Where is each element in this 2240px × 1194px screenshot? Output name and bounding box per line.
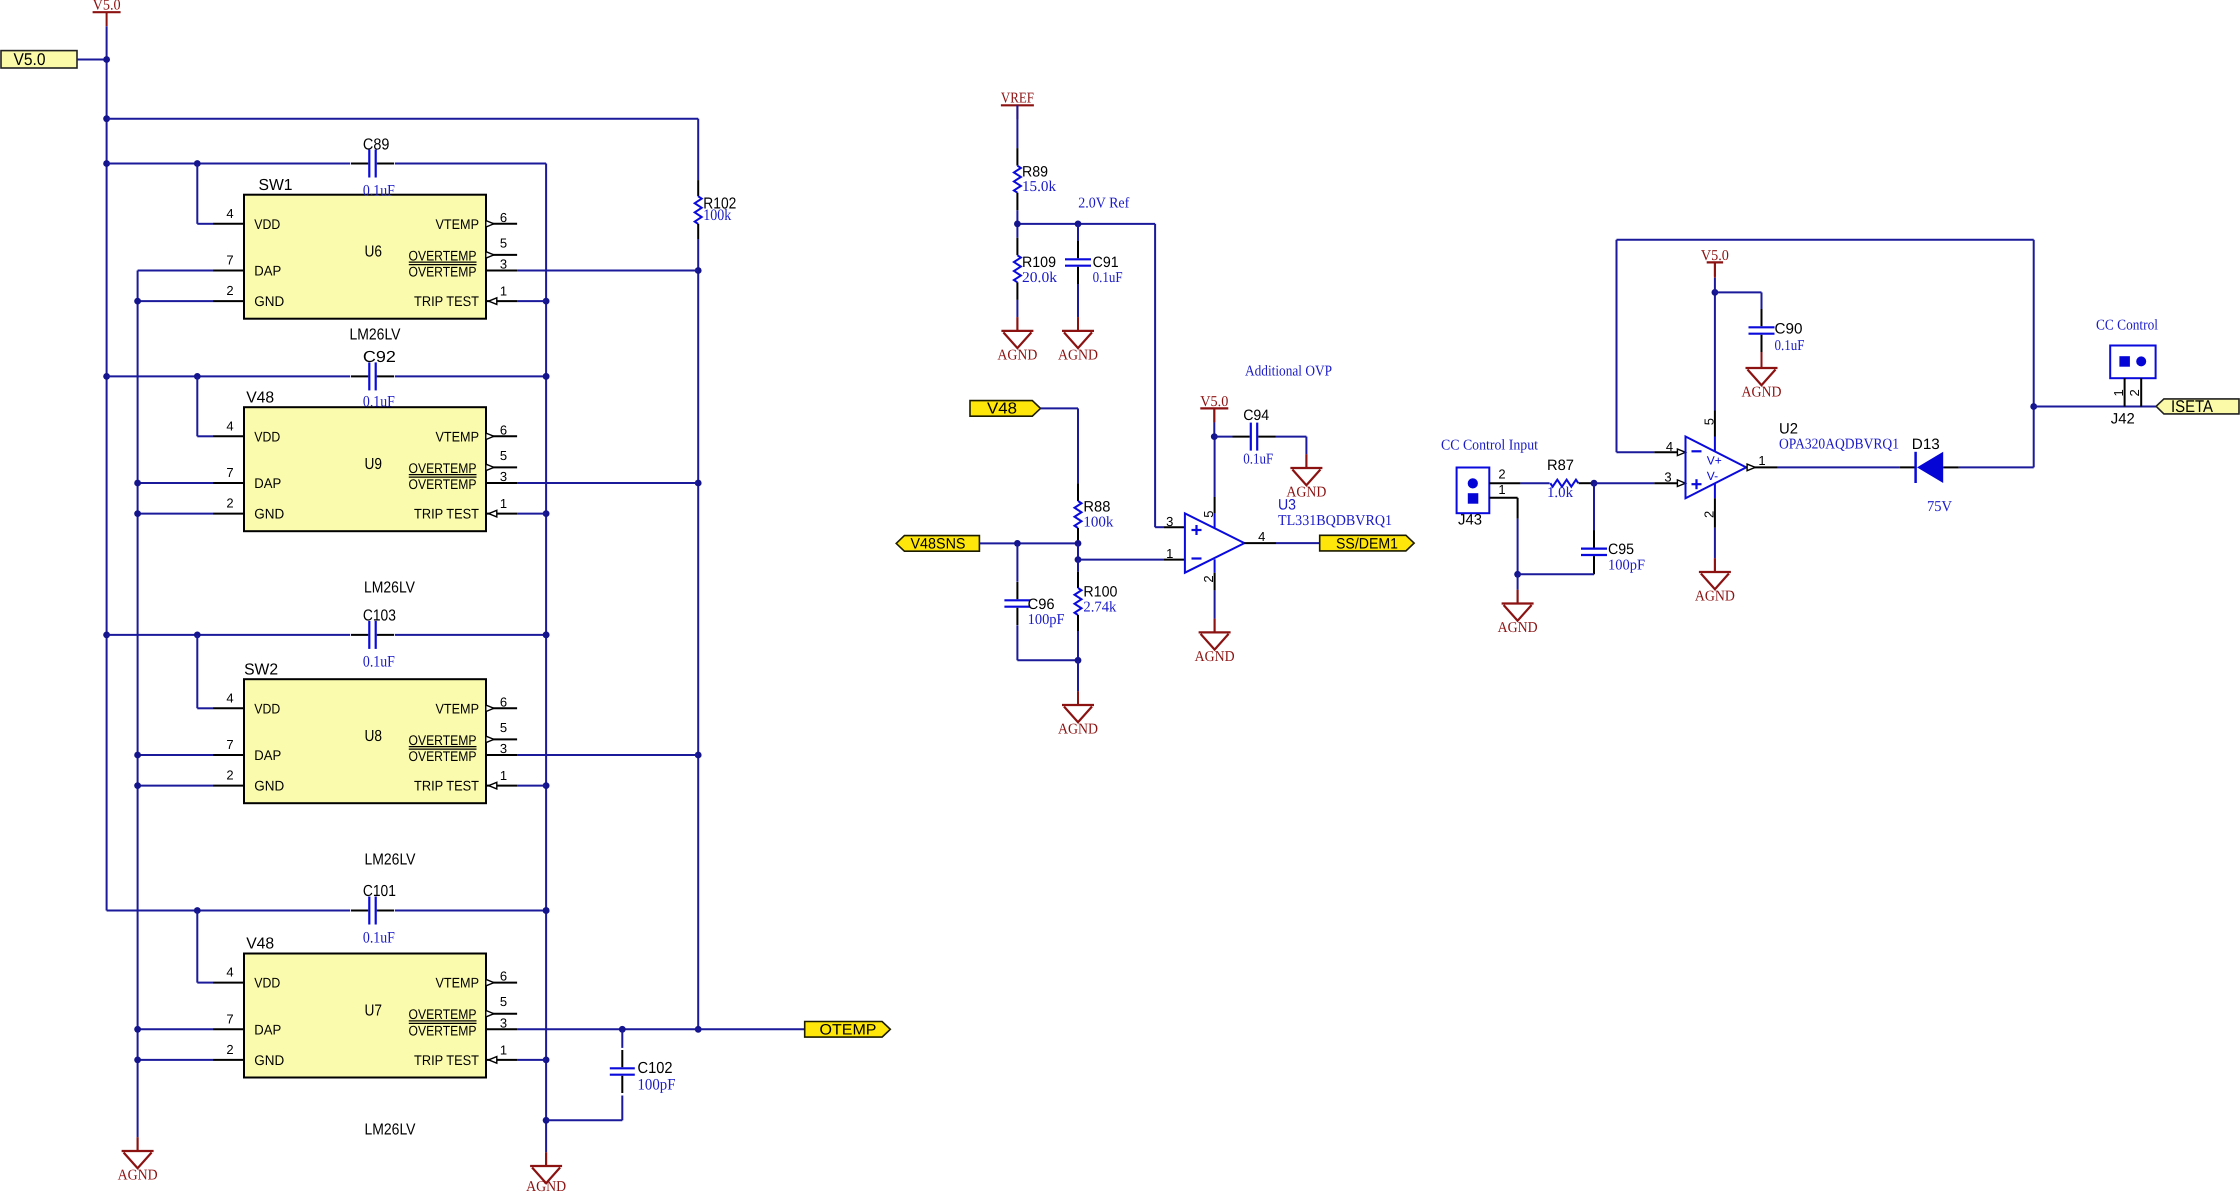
svg-text:100pF: 100pF — [1028, 612, 1065, 628]
svg-text:V48: V48 — [246, 936, 274, 953]
svg-text:DAP: DAP — [254, 1021, 281, 1037]
svg-text:5: 5 — [500, 720, 507, 735]
svg-text:C89: C89 — [363, 137, 390, 154]
svg-text:C90: C90 — [1775, 320, 1803, 337]
svg-text:100pF: 100pF — [1608, 558, 1645, 574]
svg-text:0.1uF: 0.1uF — [363, 929, 395, 946]
svg-text:OTEMP: OTEMP — [820, 1022, 877, 1039]
svg-text:AGND: AGND — [1498, 620, 1538, 636]
svg-text:R109: R109 — [1022, 254, 1056, 271]
svg-text:6: 6 — [500, 969, 507, 984]
svg-text:DAP: DAP — [254, 475, 281, 491]
svg-text:7: 7 — [226, 465, 233, 480]
svg-text:3: 3 — [500, 469, 507, 484]
svg-text:6: 6 — [500, 210, 507, 225]
svg-text:Additional OVP: Additional OVP — [1245, 363, 1332, 379]
svg-text:0.1uF: 0.1uF — [363, 393, 395, 410]
svg-text:CC Control: CC Control — [2096, 317, 2158, 333]
svg-text:1: 1 — [2111, 389, 2126, 396]
svg-text:VDD: VDD — [254, 216, 280, 232]
svg-text:C103: C103 — [363, 607, 396, 624]
svg-text:C102: C102 — [638, 1060, 673, 1077]
svg-text:TRIP TEST: TRIP TEST — [414, 778, 479, 794]
svg-text:AGND: AGND — [1058, 348, 1098, 364]
svg-text:AGND: AGND — [1195, 649, 1235, 665]
svg-text:1: 1 — [1758, 453, 1765, 468]
svg-text:TRIP TEST: TRIP TEST — [414, 293, 479, 309]
svg-text:20.0k: 20.0k — [1022, 270, 1058, 286]
svg-text:R100: R100 — [1083, 583, 1117, 600]
svg-text:LM26LV: LM26LV — [350, 327, 401, 344]
svg-text:5: 5 — [500, 448, 507, 463]
svg-text:75V: 75V — [1927, 499, 1952, 515]
svg-text:VTEMP: VTEMP — [436, 975, 480, 991]
svg-text:V48SNS: V48SNS — [911, 536, 966, 553]
svg-text:SW1: SW1 — [259, 177, 293, 194]
svg-text:OVERTEMP: OVERTEMP — [409, 247, 477, 263]
svg-text:1: 1 — [500, 768, 507, 783]
svg-text:1: 1 — [1166, 546, 1173, 561]
svg-text:AGND: AGND — [526, 1179, 566, 1194]
svg-text:3: 3 — [500, 741, 507, 756]
svg-text:2.74k: 2.74k — [1083, 599, 1116, 615]
svg-text:OVERTEMP: OVERTEMP — [409, 460, 477, 476]
svg-text:2: 2 — [226, 768, 233, 783]
svg-text:4: 4 — [226, 206, 233, 221]
svg-text:3: 3 — [1664, 470, 1671, 485]
svg-text:OVERTEMP: OVERTEMP — [409, 748, 477, 764]
svg-text:GND: GND — [254, 778, 284, 794]
svg-text:C101: C101 — [363, 883, 396, 900]
svg-text:OVERTEMP: OVERTEMP — [409, 1006, 477, 1022]
svg-text:5: 5 — [500, 235, 507, 250]
svg-text:VTEMP: VTEMP — [436, 428, 480, 444]
svg-text:1: 1 — [500, 496, 507, 511]
svg-text:AGND: AGND — [997, 348, 1037, 364]
svg-text:0.1uF: 0.1uF — [1775, 338, 1805, 354]
svg-text:6: 6 — [500, 694, 507, 709]
svg-text:2: 2 — [226, 496, 233, 511]
svg-text:100k: 100k — [1083, 515, 1114, 531]
svg-text:5: 5 — [1201, 511, 1216, 518]
svg-text:DAP: DAP — [254, 263, 281, 279]
svg-text:2: 2 — [2127, 389, 2142, 396]
svg-text:AGND: AGND — [1058, 722, 1098, 738]
svg-text:3: 3 — [500, 257, 507, 272]
svg-text:LM26LV: LM26LV — [364, 580, 415, 597]
svg-text:U9: U9 — [365, 456, 383, 473]
svg-text:V48: V48 — [987, 401, 1017, 418]
svg-text:0.1uF: 0.1uF — [1093, 270, 1123, 286]
svg-text:V+: V+ — [1707, 454, 1722, 468]
svg-text:R87: R87 — [1547, 457, 1574, 474]
svg-text:0.1uF: 0.1uF — [363, 183, 395, 200]
svg-text:2: 2 — [1702, 511, 1717, 518]
svg-text:0.1uF: 0.1uF — [363, 654, 395, 671]
svg-text:2.0V Ref: 2.0V Ref — [1078, 196, 1129, 212]
svg-text:J42: J42 — [2111, 410, 2135, 427]
svg-text:1.0k: 1.0k — [1547, 485, 1573, 501]
svg-text:SW2: SW2 — [244, 661, 278, 678]
svg-text:SS/DEM1: SS/DEM1 — [1336, 535, 1398, 552]
svg-text:7: 7 — [226, 253, 233, 268]
svg-text:5: 5 — [500, 994, 507, 1009]
svg-text:VDD: VDD — [254, 975, 280, 991]
svg-text:AGND: AGND — [1742, 385, 1782, 401]
svg-text:5: 5 — [1702, 418, 1717, 425]
svg-text:C91: C91 — [1093, 254, 1119, 271]
svg-text:OVERTEMP: OVERTEMP — [409, 732, 477, 748]
svg-text:4: 4 — [1666, 439, 1673, 454]
svg-text:4: 4 — [226, 965, 233, 980]
svg-text:D13: D13 — [1912, 436, 1940, 453]
svg-text:VTEMP: VTEMP — [436, 700, 480, 716]
svg-text:0.1uF: 0.1uF — [1243, 452, 1273, 468]
svg-text:DAP: DAP — [254, 747, 281, 763]
svg-text:U3: U3 — [1278, 497, 1296, 514]
svg-text:OVERTEMP: OVERTEMP — [409, 476, 477, 492]
svg-text:VDD: VDD — [254, 428, 280, 444]
svg-text:R89: R89 — [1022, 163, 1048, 180]
svg-text:1: 1 — [500, 284, 507, 299]
svg-text:3: 3 — [500, 1015, 507, 1030]
svg-text:2: 2 — [1201, 575, 1216, 582]
svg-text:GND: GND — [254, 1052, 284, 1068]
svg-text:TRIP TEST: TRIP TEST — [414, 506, 479, 522]
svg-text:VDD: VDD — [254, 700, 280, 716]
svg-text:V48: V48 — [246, 389, 274, 406]
svg-text:4: 4 — [1258, 529, 1265, 544]
svg-text:7: 7 — [226, 1011, 233, 1026]
svg-text:R88: R88 — [1083, 499, 1110, 516]
svg-text:OVERTEMP: OVERTEMP — [409, 264, 477, 280]
svg-text:100pF: 100pF — [638, 1076, 676, 1093]
svg-text:2: 2 — [1498, 467, 1505, 482]
svg-text:J43: J43 — [1458, 512, 1482, 529]
svg-text:V-: V- — [1707, 469, 1718, 483]
svg-text:AGND: AGND — [118, 1168, 158, 1184]
svg-text:LM26LV: LM26LV — [365, 851, 416, 868]
svg-text:VTEMP: VTEMP — [436, 216, 480, 232]
svg-text:100k: 100k — [703, 207, 731, 224]
svg-text:U2: U2 — [1779, 420, 1798, 437]
svg-text:GND: GND — [254, 506, 284, 522]
svg-text:4: 4 — [226, 418, 233, 433]
svg-text:AGND: AGND — [1695, 589, 1735, 605]
svg-text:1: 1 — [500, 1042, 507, 1057]
svg-text:15.0k: 15.0k — [1022, 179, 1057, 195]
svg-text:C92: C92 — [363, 349, 396, 366]
svg-text:TRIP TEST: TRIP TEST — [414, 1052, 479, 1068]
svg-text:GND: GND — [254, 293, 284, 309]
svg-text:U8: U8 — [365, 728, 383, 745]
svg-text:6: 6 — [500, 422, 507, 437]
svg-text:7: 7 — [226, 737, 233, 752]
svg-text:U6: U6 — [365, 244, 383, 261]
svg-text:4: 4 — [226, 690, 233, 705]
svg-text:V5.0: V5.0 — [14, 50, 46, 69]
svg-text:C95: C95 — [1608, 541, 1634, 558]
svg-text:OVERTEMP: OVERTEMP — [409, 1022, 477, 1038]
svg-text:2: 2 — [226, 283, 233, 298]
svg-text:OPA320AQDBVRQ1: OPA320AQDBVRQ1 — [1779, 436, 1899, 452]
svg-text:3: 3 — [1166, 514, 1173, 529]
svg-text:U7: U7 — [365, 1002, 383, 1019]
svg-text:C96: C96 — [1028, 596, 1055, 613]
svg-text:TL331BQDBVRQ1: TL331BQDBVRQ1 — [1278, 513, 1392, 529]
svg-text:ISETA: ISETA — [2171, 397, 2214, 416]
svg-text:C94: C94 — [1243, 407, 1269, 424]
svg-text:CC Control Input: CC Control Input — [1441, 437, 1539, 453]
svg-text:LM26LV: LM26LV — [365, 1122, 416, 1139]
svg-text:2: 2 — [226, 1042, 233, 1057]
